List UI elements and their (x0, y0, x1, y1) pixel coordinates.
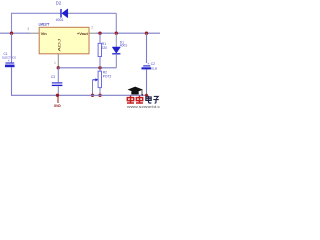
node ADJ R1 junction (98, 66, 101, 69)
capacitor C2 (142, 66, 152, 70)
wire bottom rail (11, 94, 147, 96)
op-amp U1 regulator box LM317T (39, 27, 89, 54)
ground (54, 95, 61, 108)
wire pot bottom stub (99, 88, 101, 96)
logo graduation cap (128, 87, 144, 96)
node input junction (10, 32, 13, 35)
wire C1 top (11, 33, 13, 62)
svg-text:C2: C2 (151, 62, 155, 66)
wire C2 bottom (146, 70, 148, 96)
wire output rail (96, 32, 160, 34)
svg-text:3: 3 (27, 27, 29, 31)
wire input rail left (0, 32, 30, 34)
wire ADJ pin stub (57, 54, 59, 68)
wire D1 branch upper (115, 33, 117, 47)
wire C3 bottom (57, 86, 59, 95)
wire pot top stub (99, 68, 101, 71)
svg-text:ADJ: ADJ (57, 39, 62, 52)
svg-text:GND: GND (54, 104, 61, 108)
logo text 电子 (146, 96, 159, 103)
svg-text:www.seworld.c: www.seworld.c (126, 105, 160, 109)
wire top loop left vertical (11, 13, 13, 33)
node pot bottom junction (98, 94, 101, 97)
wire top loop right vertical (115, 13, 117, 33)
diode D1 (112, 47, 120, 54)
capacitor C1 (5, 63, 15, 67)
logo text 虫虫 (127, 96, 143, 104)
svg-text:ELB: ELB (151, 67, 157, 71)
wire output pin stub (89, 32, 96, 34)
node output R1 junction (98, 32, 101, 35)
svg-text:4001: 4001 (56, 18, 64, 22)
wire C3 top (57, 68, 59, 83)
svg-text:2: 2 (91, 26, 93, 30)
svg-text:POT2: POT2 (103, 75, 112, 79)
node output loop junction (115, 32, 118, 35)
svg-text:D2: D2 (56, 0, 62, 5)
node ADJ junction (57, 66, 60, 69)
node wiper bottom junction (91, 94, 94, 97)
wire input pin stub (30, 32, 39, 34)
wire R1 top stub (99, 33, 101, 43)
wire top loop horizontal left of D2 (11, 12, 61, 14)
wire R1 bottom stub (99, 57, 101, 68)
node ground junction (56, 94, 59, 97)
wire top loop horizontal right of D2 (68, 12, 117, 14)
svg-text:4001: 4001 (120, 44, 128, 48)
svg-text:Vin: Vin (41, 31, 48, 36)
node C2 bottom junction (145, 94, 148, 97)
svg-text:LM317T: LM317T (39, 23, 50, 27)
capacitor C3 (52, 83, 63, 86)
svg-text:1: 1 (54, 61, 56, 65)
wire D1 branch lower (115, 54, 117, 68)
diode D2 (61, 9, 68, 18)
svg-text:220: 220 (102, 46, 108, 50)
potentiometer R2 (93, 71, 102, 87)
wire C1 bottom (11, 67, 13, 95)
wire C2 top (146, 33, 148, 63)
node output C2 junction (145, 32, 148, 35)
resistor R1 (98, 43, 101, 56)
wire pot wiper vertical (92, 80, 94, 96)
svg-text:+Vout: +Vout (77, 31, 89, 36)
wire ADJ net horizontal (58, 67, 116, 69)
svg-text:C3: C3 (51, 75, 55, 79)
